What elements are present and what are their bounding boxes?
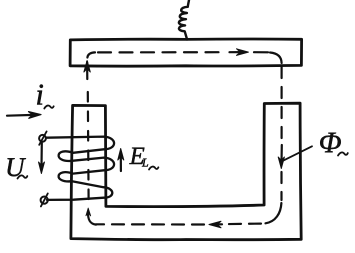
flux path dashed: right leg down	[281, 67, 283, 142]
flux corner arrow up into left leg	[88, 212, 96, 225]
coil W on left leg	[47, 137, 115, 200]
tilde of E	[149, 167, 158, 170]
flux arrow right in top bar	[230, 51, 244, 53]
EMF arrow	[120, 155, 122, 171]
flux path dashed: top bar rightward	[98, 51, 226, 53]
flux path dashed continue left	[96, 223, 204, 225]
flux corner into top bar	[87, 52, 95, 57]
label E	[129, 148, 144, 164]
flux arrow up through left air gap	[86, 62, 88, 79]
terminal (bottom)	[41, 197, 48, 204]
subscript L	[142, 159, 148, 167]
voltage arrow	[40, 143, 42, 167]
current arrow	[7, 114, 34, 117]
flux arrow down in right leg	[280, 145, 282, 163]
flux path dashed below arrow + corner left	[280, 172, 282, 200]
flux arrow left in bottom bar	[214, 223, 222, 225]
core armature (top bar)	[70, 39, 302, 66]
tilde of U	[18, 175, 28, 178]
core U-yoke	[71, 103, 301, 240]
label i	[37, 85, 43, 105]
flux path dashed: bottom bar leftward	[227, 223, 261, 226]
tilde of i	[44, 106, 53, 109]
label Phi	[320, 133, 341, 153]
spring	[179, 0, 189, 40]
tilde of Phi	[338, 152, 348, 155]
flux path dashed: left leg up	[87, 92, 90, 199]
label U	[8, 158, 27, 176]
terminal (top)	[39, 135, 46, 142]
Phi leader line	[283, 146, 312, 160]
flux path dashed after arrow + corner down	[254, 51, 268, 53]
